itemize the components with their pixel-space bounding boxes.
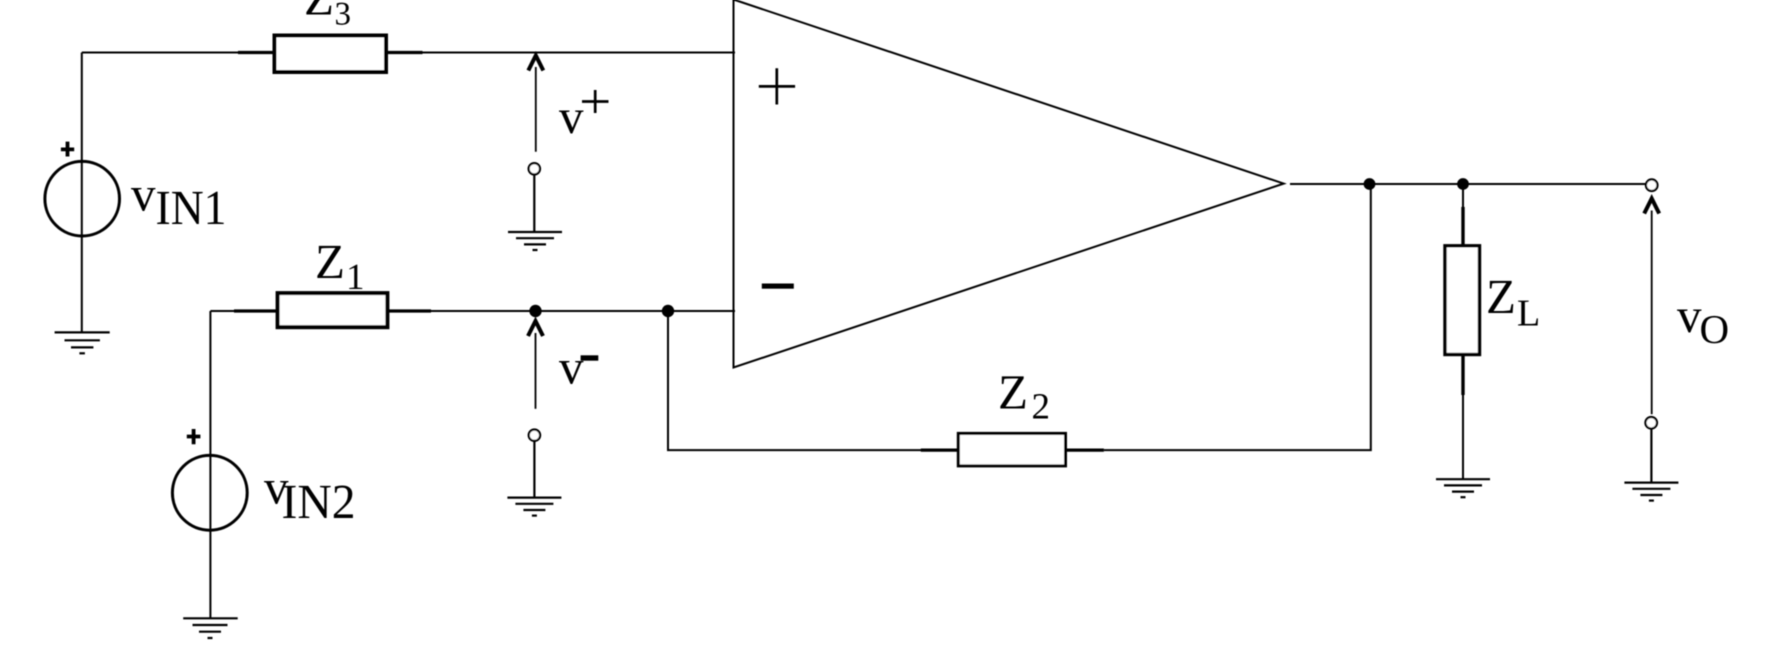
wire Z1 row left xyxy=(210,310,236,312)
svg-text:IN1: IN1 xyxy=(156,180,227,235)
node v- arrow xyxy=(528,321,543,336)
svg-text:v: v xyxy=(131,167,156,222)
resistor Z2 lead right xyxy=(1064,449,1104,452)
resistor Z1 lead right xyxy=(386,309,431,312)
junction node output / feedback xyxy=(1364,178,1376,190)
junction node output / ZL xyxy=(1457,178,1469,190)
voltage source VIN2 xyxy=(172,455,247,530)
wire op-amp output row xyxy=(1290,183,1646,185)
wire vIN2 vertical xyxy=(209,311,211,618)
wire v- terminal to ground xyxy=(533,441,535,498)
wire feedback right vertical xyxy=(1104,184,1371,450)
op-amp U1 inverting input minus sign xyxy=(762,284,794,289)
node v+ arrow xyxy=(528,56,543,71)
resistor Z3 lead left xyxy=(238,51,276,54)
op-amp U1 non-inverting input plus sign xyxy=(759,68,795,104)
resistor ZL lead top xyxy=(1461,207,1464,247)
svg-text:v: v xyxy=(559,89,584,144)
op-amp U1 xyxy=(734,0,1284,368)
VIN1 polarity plus sign xyxy=(61,142,74,157)
resistor Z3 body xyxy=(275,36,387,73)
svg-text:1: 1 xyxy=(346,257,365,298)
wire Z1 to op-amp - input xyxy=(429,310,735,312)
junction node inverting input / feedback xyxy=(662,305,674,317)
resistor Z1 body xyxy=(278,293,388,327)
svg-text:2: 2 xyxy=(1032,387,1051,428)
resistor ZL lead bottom xyxy=(1461,354,1464,396)
wire ZL top thin xyxy=(1462,184,1464,208)
terminal circle vO bottom xyxy=(1645,417,1657,429)
resistor ZL body xyxy=(1445,246,1480,355)
svg-text:L: L xyxy=(1517,293,1540,335)
ground G5 (ZL) xyxy=(1436,479,1490,497)
wire vO terminal to ground xyxy=(1650,429,1652,483)
svg-text:v: v xyxy=(559,339,584,394)
wire top row: vin1 to Z3 xyxy=(82,52,240,54)
wire vin1 vertical xyxy=(81,53,83,333)
ground G2 (v+) xyxy=(508,232,562,250)
svg-text:Z: Z xyxy=(1486,269,1516,324)
svg-text:3: 3 xyxy=(335,0,352,33)
resistor Z1 lead left xyxy=(234,309,279,312)
svg-text:Z: Z xyxy=(304,0,334,26)
resistor Z2 lead left xyxy=(921,449,960,452)
wire Z3 to op-amp + input xyxy=(421,52,735,54)
wire feedback down-left xyxy=(668,311,922,450)
svg-text:Z: Z xyxy=(998,365,1028,420)
ground G3 (v-) xyxy=(507,498,561,516)
resistor Z3 lead right xyxy=(385,51,423,54)
ground G6 (vO) xyxy=(1624,483,1678,501)
ground G4 (vIN2) xyxy=(183,618,238,638)
voltage source VIN1 xyxy=(45,161,120,236)
resistor Z2 body xyxy=(958,433,1065,466)
svg-text:IN2: IN2 xyxy=(282,474,356,529)
svg-text:v: v xyxy=(1677,288,1702,343)
ground G1 (vIN1) xyxy=(55,332,110,353)
wire ZL bottom thin xyxy=(1462,395,1464,479)
VIN2 polarity plus sign xyxy=(187,429,201,444)
wire v+ terminal to ground xyxy=(533,175,535,233)
node vO arrow xyxy=(1644,199,1659,214)
svg-text:Z: Z xyxy=(315,234,345,289)
terminal circle v- xyxy=(529,430,540,441)
svg-text:O: O xyxy=(1700,306,1730,352)
junction node v- tap xyxy=(529,305,541,317)
terminal circle v+ xyxy=(529,163,540,174)
terminal circle vO top xyxy=(1646,179,1658,191)
